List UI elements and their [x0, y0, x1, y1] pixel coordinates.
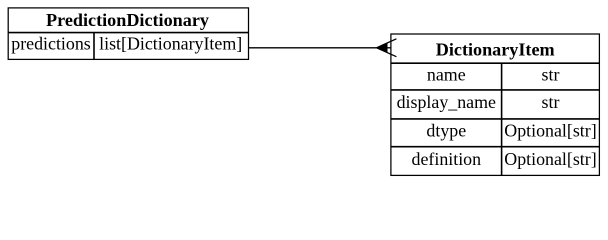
svg-text:name: name — [427, 64, 466, 84]
svg-text:PredictionDictionary: PredictionDictionary — [46, 10, 209, 30]
svg-text:dtype: dtype — [426, 121, 466, 141]
svg-text:definition: definition — [412, 149, 482, 169]
svg-text:str: str — [542, 92, 560, 112]
svg-text:list[DictionaryItem]: list[DictionaryItem] — [99, 34, 242, 54]
svg-text:DictionaryItem: DictionaryItem — [436, 39, 555, 59]
svg-text:predictions: predictions — [11, 34, 91, 54]
svg-text:display_name: display_name — [397, 92, 496, 112]
svg-text:Optional[str]: Optional[str] — [504, 149, 596, 169]
svg-text:str: str — [542, 64, 560, 84]
svg-text:Optional[str]: Optional[str] — [504, 121, 596, 141]
